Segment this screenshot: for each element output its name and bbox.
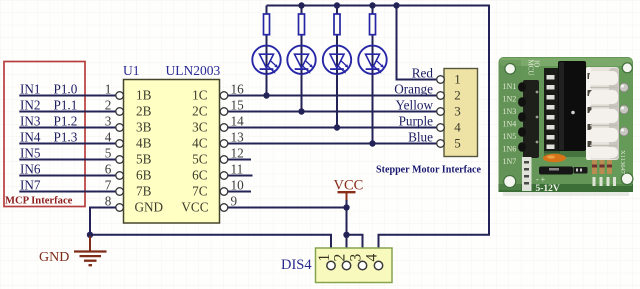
resistor R3 column wire	[336, 6, 338, 128]
svg-text:1N2: 1N2	[503, 94, 517, 103]
wire ground rail to DIS4 pin1	[90, 235, 331, 261]
svg-text:13: 13	[231, 129, 245, 144]
U1 right pin circle 10	[220, 188, 228, 196]
node D4 to pin13 junction	[369, 140, 375, 146]
U1 left pin circle 8	[116, 204, 124, 212]
node VCC pin9 junction	[343, 204, 349, 210]
svg-text:IN6: IN6	[20, 161, 41, 176]
svg-text:5B: 5B	[136, 152, 152, 167]
svg-text:14: 14	[231, 113, 245, 128]
wire pin12 stub	[228, 159, 251, 161]
power VCC symbol	[334, 178, 364, 201]
orange polyfuse	[543, 154, 566, 162]
node ground junction	[87, 232, 93, 238]
svg-text:1N1: 1N1	[503, 82, 517, 91]
wire pin14 to Purple	[228, 127, 437, 129]
connector pin circle Blue	[437, 140, 445, 148]
svg-text:- +: - +	[536, 175, 546, 184]
connector pin circle Yellow	[437, 108, 445, 116]
svg-text:2: 2	[332, 254, 349, 262]
resistor R1	[264, 14, 270, 35]
svg-text:5-12V: 5-12V	[536, 184, 560, 194]
connector Stepper Motor Interface	[376, 69, 482, 176]
svg-text:2: 2	[105, 97, 112, 112]
svg-text:IN5: IN5	[20, 145, 41, 160]
wire IN3	[19, 127, 116, 129]
wire pin9 to VCC	[228, 207, 347, 209]
svg-text:5C: 5C	[192, 152, 208, 167]
svg-text:10: 10	[231, 177, 245, 192]
connector pin circle Purple	[437, 124, 445, 132]
svg-text:Orange: Orange	[394, 81, 433, 96]
svg-text:IN2: IN2	[20, 97, 41, 112]
U1 right pin circle 15	[220, 108, 228, 116]
ground	[39, 236, 107, 265]
white silkscreen strip	[522, 157, 532, 191]
svg-text:7B: 7B	[136, 184, 152, 199]
svg-text:1N6: 1N6	[503, 144, 517, 153]
node rail junction Red	[393, 2, 399, 8]
U1 left pin circle 5	[116, 156, 124, 164]
svg-text:4B: 4B	[136, 136, 152, 151]
wire VCC branch to DIS4 pin3	[347, 235, 363, 261]
wire pin16 to Orange	[228, 95, 437, 97]
U1 right pin circle 13	[220, 140, 228, 148]
svg-text:9: 9	[231, 193, 238, 208]
svg-text:IO: IO	[533, 60, 541, 67]
wire IN4	[19, 143, 116, 145]
svg-text:7C: 7C	[192, 184, 208, 199]
node D1 to pin16 junction	[263, 92, 269, 98]
MCP Interface sheet symbol	[4, 62, 85, 207]
wire pin13 to Blue	[228, 143, 437, 145]
svg-text:1N4: 1N4	[503, 119, 517, 128]
wire IN2	[19, 111, 116, 113]
DIS4 pin circle 2	[342, 261, 350, 269]
connector DIS4	[316, 248, 393, 283]
svg-text:3: 3	[454, 104, 461, 119]
svg-text:1B: 1B	[136, 88, 152, 103]
U1 right pin circle 14	[220, 124, 228, 132]
U1 left pin circle 7	[116, 188, 124, 196]
LED D1	[252, 46, 280, 74]
wire IN1	[19, 95, 116, 97]
mounting hole bottom-right	[621, 173, 633, 185]
svg-text:P1.0: P1.0	[54, 81, 78, 96]
svg-text:GND: GND	[135, 200, 164, 215]
svg-text:15: 15	[231, 97, 245, 112]
resistor R4	[370, 14, 376, 35]
svg-text:11: 11	[231, 161, 244, 176]
U1 left pin circle 1	[116, 92, 124, 100]
svg-text:7: 7	[105, 177, 112, 192]
IC socket contacts	[544, 68, 560, 153]
DIS4 pin circle 4	[374, 261, 382, 269]
U1 right pin circle 12	[220, 156, 228, 164]
op-amp U1 ULN2003 body	[123, 63, 220, 223]
wire IN6	[19, 175, 116, 177]
silkscreen IN labels	[503, 82, 517, 166]
U1 right pin circle 9	[220, 204, 228, 212]
wire GND net from pin8	[90, 208, 116, 235]
resistor R3	[334, 14, 340, 35]
wire IN5	[19, 159, 116, 161]
svg-text:4: 4	[454, 120, 461, 135]
svg-text:U1: U1	[123, 63, 140, 78]
resistor ref labels	[593, 177, 617, 186]
svg-text:6: 6	[105, 161, 112, 176]
svg-text:P1.2: P1.2	[54, 113, 78, 128]
ULN2003 DIP IC	[544, 151, 586, 157]
svg-text:Purple: Purple	[399, 113, 434, 128]
svg-text:IN7: IN7	[20, 177, 41, 192]
XH connector	[586, 67, 619, 160]
svg-text:Stepper Motor Interface: Stepper Motor Interface	[376, 165, 482, 176]
LED D3	[323, 46, 351, 74]
svg-text:1C: 1C	[192, 88, 208, 103]
svg-text:1N3: 1N3	[503, 107, 517, 116]
node VCC bottom junction	[343, 232, 349, 238]
svg-text:X113647: X113647	[619, 150, 626, 175]
svg-text:12: 12	[231, 145, 244, 160]
mounting hole top-right	[622, 63, 632, 73]
svg-text:3B: 3B	[136, 120, 152, 135]
svg-text:1: 1	[105, 81, 112, 96]
svg-text:Blue: Blue	[408, 129, 433, 144]
mounting hole top-left	[505, 64, 516, 75]
svg-text:4: 4	[364, 254, 381, 262]
node D2 to pin15 junction	[298, 108, 304, 114]
svg-text:4: 4	[105, 129, 112, 144]
resistor R1 column wire	[266, 6, 268, 96]
svg-text:2: 2	[454, 88, 461, 103]
svg-text:IN3: IN3	[20, 113, 41, 128]
U1 right pin circle 11	[220, 172, 228, 180]
wire Red net	[397, 6, 437, 80]
svg-text:2B: 2B	[136, 104, 152, 119]
U1 left pin circle 2	[116, 108, 124, 116]
svg-text:6B: 6B	[136, 168, 152, 183]
svg-text:3: 3	[348, 254, 365, 262]
U1 left pin circle 6	[116, 172, 124, 180]
connector pins	[620, 83, 629, 136]
connector pin circle Orange	[437, 92, 445, 100]
svg-text:P1.1: P1.1	[54, 97, 78, 112]
svg-text:Yellow: Yellow	[395, 97, 433, 112]
svg-text:P1.3: P1.3	[54, 129, 78, 144]
resistor R2 column wire	[301, 6, 303, 112]
resistor R4 column wire	[372, 6, 374, 144]
black diode row	[539, 167, 573, 175]
U1 right pin circle 16	[220, 92, 228, 100]
mounting hole bottom-left	[504, 176, 516, 188]
svg-text:4C: 4C	[192, 136, 208, 151]
svg-text:6C: 6C	[192, 168, 208, 183]
svg-text:5: 5	[105, 145, 112, 160]
ULN2003 driver module photo	[499, 57, 634, 196]
U1 left pin circle 4	[116, 140, 124, 148]
connector pin circle Red	[437, 76, 445, 84]
wire pin11 stub	[228, 175, 253, 177]
input pin header	[523, 80, 539, 158]
svg-text:5: 5	[454, 136, 461, 151]
svg-text:ULN2003: ULN2003	[166, 63, 221, 78]
node D3 to pin14 junction	[334, 124, 340, 130]
DIS4 pin circle 1	[327, 261, 335, 269]
LED D2	[287, 46, 315, 74]
svg-text:VCC: VCC	[181, 200, 208, 215]
wire pin10 stub	[228, 191, 251, 193]
svg-text:3: 3	[105, 113, 112, 128]
svg-text:16: 16	[231, 81, 245, 96]
svg-text:Red: Red	[412, 65, 434, 80]
svg-text:1: 1	[454, 72, 461, 87]
svg-text:GND: GND	[39, 250, 69, 265]
LED D4	[358, 46, 386, 74]
svg-text:1N7: 1N7	[503, 157, 517, 166]
svg-text:8: 8	[105, 193, 112, 208]
svg-text:IN4: IN4	[20, 129, 41, 144]
U1 left pin circle 3	[116, 124, 124, 132]
svg-text:DIS4: DIS4	[281, 257, 312, 273]
svg-text:IN1: IN1	[20, 81, 41, 96]
resistor R2	[299, 14, 305, 35]
node rail junction R4	[369, 2, 375, 8]
wire pin15 to Yellow	[228, 111, 437, 113]
svg-text:1N5: 1N5	[503, 132, 517, 141]
svg-text:1: 1	[316, 254, 333, 262]
node rail junction R3	[334, 2, 340, 8]
svg-text:3C: 3C	[192, 120, 208, 135]
wire VCC top rail	[267, 6, 490, 262]
node rail junction R2	[298, 2, 304, 8]
DIS4 pin circle 3	[358, 261, 366, 269]
wire VCC to DIS4 pin2	[346, 200, 348, 261]
SMD resistors	[592, 160, 612, 174]
svg-text:2C: 2C	[192, 104, 208, 119]
wire IN7	[19, 191, 116, 193]
svg-text:MCP Interface: MCP Interface	[5, 196, 73, 207]
